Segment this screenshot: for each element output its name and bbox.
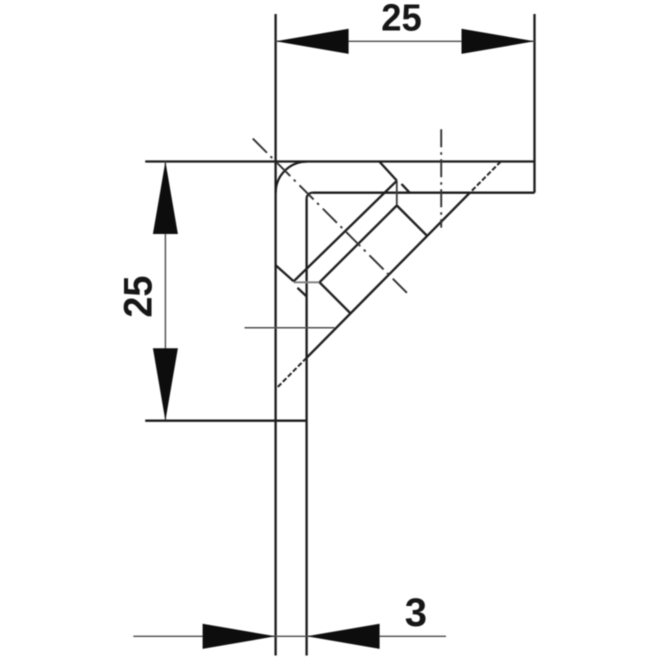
dimension line bottom 3 [133, 635, 446, 637]
dimension arrow left-up [153, 162, 178, 235]
centerline DD1 diagonal dash-dot axis [253, 139, 409, 296]
dimension arrow bottom-right pointing left [307, 624, 380, 649]
rib top end cap V3 [396, 181, 398, 206]
wire: right end of horizontal leg / extension line VR [533, 14, 535, 193]
dimension arrow left-down [153, 348, 178, 421]
dimension arrow bottom-left pointing right [203, 624, 276, 649]
dimension line top 25 [276, 40, 535, 42]
dimension line left 25 [164, 162, 166, 421]
extension line H5 bottom of bracket leg [145, 420, 306, 422]
dimension arrow top-right [462, 29, 535, 54]
short edge BIG3 from rib to hypotenuse [320, 282, 351, 313]
wire: left edge of vertical profile / extension line V1 [274, 14, 276, 656]
flange junction edge D1 lower segment [402, 184, 410, 193]
gusset hypotenuse BIG1 solid part [307, 193, 470, 358]
rib lower-right edge BIG2 [320, 206, 397, 283]
corner fillet arc radius 31 [276, 162, 307, 193]
svg-text:25: 25 [117, 276, 161, 318]
thin mid line H4 across vertical leg [245, 327, 335, 329]
dimension arrow top-left [276, 29, 349, 54]
gusset hypotenuse hidden dashed lower part [276, 358, 307, 389]
wire: bottom edge of horizontal leg H2 [312, 192, 534, 194]
rib bottom end cap H3 [294, 281, 320, 283]
inner corner small fillet arc [307, 193, 313, 199]
rib upper-left edge D2 [294, 181, 397, 281]
flange junction edge D4 lower segment [298, 288, 307, 297]
svg-text:25: 25 [381, 0, 422, 40]
flange junction edge D1 upper segment [379, 162, 397, 181]
svg-text:3: 3 [405, 591, 427, 635]
flange junction edge D4 upper segment [276, 265, 294, 281]
gusset hypotenuse hidden dashed upper part [470, 162, 501, 193]
wire: top edge of horizontal leg H1 [145, 160, 534, 162]
short edge D5 from rib to hypotenuse [397, 206, 427, 236]
wire: right edge of vertical profile V2 [305, 198, 307, 655]
centerline DD3 vertical dash-dot [440, 129, 442, 227]
